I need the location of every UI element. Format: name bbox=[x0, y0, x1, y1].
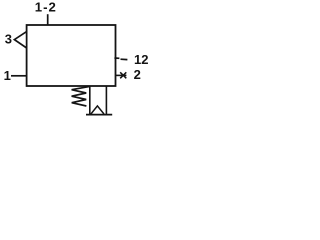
background bbox=[0, 0, 151, 127]
wire port 1-2 stub bbox=[47, 14, 49, 25]
actuator base line bbox=[86, 114, 112, 116]
pilot line port 12 (dashed) bbox=[114, 58, 127, 60]
svg-text:12: 12 bbox=[134, 52, 148, 67]
svg-text:2: 2 bbox=[134, 67, 141, 82]
svg-text:1: 1 bbox=[4, 68, 11, 83]
actuator right stem bbox=[105, 86, 107, 115]
spring S1 bbox=[72, 86, 90, 106]
actuator roller triangle bbox=[91, 106, 104, 114]
valve body V1 bbox=[27, 25, 116, 86]
svg-text:1-2: 1-2 bbox=[35, 0, 57, 15]
wire port 1 bbox=[11, 75, 27, 77]
actuator left stem bbox=[89, 86, 91, 115]
svg-text:3: 3 bbox=[5, 31, 12, 46]
exhaust triangle port 3 bbox=[14, 32, 26, 48]
wire port 2 bbox=[116, 74, 127, 76]
plugged-port X at port 2 bbox=[120, 72, 126, 78]
